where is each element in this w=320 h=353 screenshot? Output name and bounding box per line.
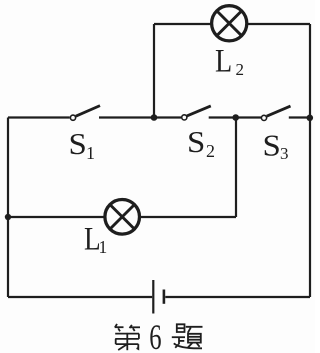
svg-text:S: S — [187, 124, 205, 159]
svg-text:3: 3 — [280, 144, 289, 163]
svg-text:2: 2 — [206, 141, 215, 161]
svg-text:6: 6 — [149, 317, 161, 353]
svg-text:L: L — [215, 44, 232, 80]
svg-text:1: 1 — [86, 143, 95, 163]
svg-text:S: S — [263, 128, 281, 163]
svg-text:S: S — [69, 126, 87, 161]
svg-text:2: 2 — [236, 60, 245, 79]
svg-text:1: 1 — [99, 237, 108, 257]
